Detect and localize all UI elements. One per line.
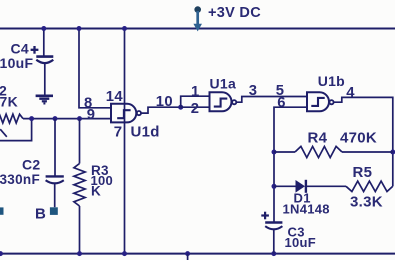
svg-text:1: 1 xyxy=(191,84,200,100)
svg-text:R4: R4 xyxy=(308,130,328,147)
svg-text:7: 7 xyxy=(114,124,123,141)
capacitor C3 xyxy=(265,223,282,254)
node bottom rail R3 xyxy=(77,251,82,256)
svg-text:10uF: 10uF xyxy=(0,55,34,71)
wire pin 6 to timing node xyxy=(274,107,307,222)
wire pin 2 xyxy=(181,106,210,108)
node B pad xyxy=(50,207,58,215)
op gate U1b body xyxy=(307,92,329,111)
svg-text:3: 3 xyxy=(249,83,258,99)
svg-text:10: 10 xyxy=(156,94,173,110)
resistor R4 xyxy=(274,146,393,157)
svg-text:+3V DC: +3V DC xyxy=(208,5,261,21)
svg-text:470K: 470K xyxy=(340,130,377,147)
wire C4 branch from top rail xyxy=(43,29,45,56)
svg-text:3.3K: 3.3K xyxy=(350,194,383,211)
svg-text:10uF: 10uF xyxy=(285,235,317,250)
svg-text:U1b: U1b xyxy=(318,73,345,89)
node R4 right junction xyxy=(390,150,395,155)
U1a output bubble xyxy=(232,100,236,104)
svg-text:R5: R5 xyxy=(353,164,373,181)
svg-text:U1d: U1d xyxy=(131,124,160,141)
svg-text:6: 6 xyxy=(277,95,286,111)
C3 plus sign xyxy=(261,212,269,220)
wire pin 3 to pin 5 xyxy=(237,97,308,103)
U1d output bubble xyxy=(137,111,141,115)
wire U1d output pin 10 xyxy=(141,107,181,113)
wire pot to pin 9 xyxy=(23,118,112,120)
U1d schmitt symbol xyxy=(117,110,130,118)
node pins 1-2 junction xyxy=(178,105,183,110)
node pot junction xyxy=(29,116,34,121)
node bottom rail C3 xyxy=(271,251,276,256)
potentiometer R2 element xyxy=(0,114,23,123)
svg-text:14: 14 xyxy=(106,89,124,105)
resistor R5 xyxy=(346,181,393,191)
U1b schmitt symbol xyxy=(311,98,324,106)
node top rail C4 xyxy=(41,26,46,31)
C4 plus sign xyxy=(31,46,39,54)
wire ground bottom rail xyxy=(0,253,395,255)
power terminal +3V DC xyxy=(193,6,202,31)
svg-text:K: K xyxy=(91,184,101,199)
U1a schmitt symbol xyxy=(214,99,228,107)
wire stub below rail xyxy=(187,254,189,260)
op gate U1d body xyxy=(111,104,136,123)
svg-text:B: B xyxy=(35,206,46,223)
svg-text:2: 2 xyxy=(191,101,200,117)
node D1 left junction xyxy=(272,184,277,189)
node bottom rail pin7 xyxy=(122,251,127,256)
svg-text:C2: C2 xyxy=(22,157,41,173)
ground xyxy=(36,96,53,104)
node C2 junction xyxy=(53,116,58,121)
resistor R3 xyxy=(74,119,85,254)
op gate U1a body xyxy=(210,92,232,111)
U1b output bubble xyxy=(329,100,333,104)
node R4 left junction xyxy=(272,150,277,155)
diode D1 xyxy=(274,180,346,193)
wire +V to pin 8 xyxy=(79,29,112,108)
svg-text:1N4148: 1N4148 xyxy=(283,201,330,216)
wire pin14/pin7 through line xyxy=(124,29,126,254)
capacitor C2 xyxy=(46,119,64,208)
node A pad (cut at left edge) xyxy=(0,207,4,214)
wire +V top rail xyxy=(0,28,395,30)
node top rail pin14 xyxy=(122,26,127,31)
svg-text:4: 4 xyxy=(346,85,355,101)
svg-text:330nF: 330nF xyxy=(0,172,40,187)
svg-text:9: 9 xyxy=(87,107,96,123)
node bottom rail stub xyxy=(185,251,190,256)
wire pot wiper return xyxy=(0,119,32,141)
capacitor C4 xyxy=(36,57,53,96)
svg-text:7K: 7K xyxy=(0,94,18,110)
potentiometer wiper arrow xyxy=(0,129,7,137)
wire pin 4 output xyxy=(334,97,393,186)
svg-text:U1a: U1a xyxy=(210,76,237,92)
node bottom rail left end xyxy=(0,251,3,256)
node R3 junction xyxy=(77,116,82,121)
node top rail pin8 xyxy=(77,26,82,31)
wire pin 1 loop xyxy=(181,96,210,107)
